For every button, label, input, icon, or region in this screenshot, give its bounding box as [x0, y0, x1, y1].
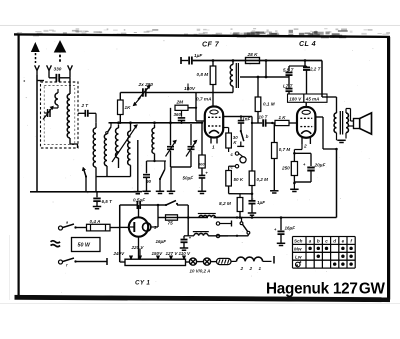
- svg-text:0,8 M: 0,8 M: [197, 72, 209, 77]
- svg-text:180V: 180V: [184, 86, 196, 92]
- svg-text:28 K: 28 K: [247, 52, 259, 58]
- svg-text:1nF: 1nF: [242, 117, 250, 122]
- svg-text:0,7 mA: 0,7 mA: [196, 97, 212, 103]
- svg-text:6,5 T: 6,5 T: [102, 199, 114, 204]
- svg-text:1K: 1K: [125, 105, 132, 110]
- svg-text:1 K: 1 K: [279, 115, 287, 120]
- svg-text:Mw: Mw: [294, 246, 302, 251]
- svg-text:50 K: 50 K: [234, 177, 244, 182]
- svg-text:0,5μF: 0,5μF: [133, 198, 145, 203]
- svg-text:180 V: 180 V: [289, 97, 302, 102]
- svg-text:CY 1: CY 1: [135, 280, 150, 287]
- svg-text:1μF: 1μF: [257, 200, 265, 205]
- svg-text:1μF: 1μF: [194, 53, 202, 58]
- svg-text:2 T: 2 T: [81, 103, 90, 108]
- svg-text:b: b: [317, 239, 320, 244]
- svg-text:2,2 T: 2,2 T: [309, 67, 322, 72]
- svg-text:127 V: 127 V: [166, 251, 179, 256]
- svg-text:10 V/0,2 A: 10 V/0,2 A: [190, 268, 211, 273]
- svg-text:360: 360: [174, 112, 182, 117]
- svg-text:3: 3: [154, 225, 157, 231]
- svg-text:CF 7: CF 7: [202, 41, 220, 49]
- svg-text:c: c: [325, 239, 328, 244]
- svg-text:16μF: 16μF: [285, 226, 296, 231]
- svg-text:2: 2: [249, 266, 253, 271]
- svg-text:150V: 150V: [152, 251, 164, 256]
- svg-text:0,4 A: 0,4 A: [90, 219, 102, 224]
- svg-text:0,2 M: 0,2 M: [257, 177, 269, 182]
- svg-text:d: d: [333, 239, 336, 244]
- svg-text:75: 75: [168, 221, 174, 227]
- svg-text:+: +: [205, 171, 208, 176]
- svg-text:2x 280: 2x 280: [138, 82, 154, 88]
- svg-text:a: a: [309, 239, 312, 244]
- svg-text:0,1 M: 0,1 M: [263, 102, 275, 107]
- svg-text:10 T: 10 T: [259, 115, 269, 120]
- svg-text:Sch: Sch: [294, 239, 303, 244]
- svg-text:250: 250: [281, 166, 290, 171]
- svg-text:20μF: 20μF: [314, 163, 326, 168]
- svg-text:330: 330: [54, 67, 62, 73]
- svg-text:CL 4: CL 4: [299, 40, 316, 48]
- svg-text:45 mA: 45 mA: [305, 97, 320, 102]
- svg-text:2: 2: [303, 144, 307, 150]
- svg-text:Hagenuk 127GW: Hagenuk 127GW: [266, 281, 385, 298]
- svg-text:50μF: 50μF: [183, 176, 194, 181]
- svg-text:8,2 M: 8,2 M: [219, 201, 232, 207]
- svg-text:90: 90: [146, 179, 152, 184]
- svg-text:600: 600: [198, 163, 205, 167]
- svg-text:e: e: [342, 239, 345, 244]
- svg-text:240V: 240V: [113, 251, 126, 256]
- svg-text:220 V: 220 V: [131, 245, 145, 250]
- svg-text:Lw: Lw: [295, 254, 302, 259]
- svg-text:1: 1: [212, 145, 215, 151]
- svg-text:2M: 2M: [176, 100, 185, 106]
- svg-text:2: 2: [240, 266, 244, 271]
- svg-text:50 W: 50 W: [78, 243, 91, 249]
- svg-text:110 V: 110 V: [179, 251, 192, 256]
- svg-text:b: b: [246, 134, 249, 139]
- svg-text:0,7 M: 0,7 M: [279, 147, 291, 152]
- svg-text:16μF: 16μF: [156, 239, 167, 244]
